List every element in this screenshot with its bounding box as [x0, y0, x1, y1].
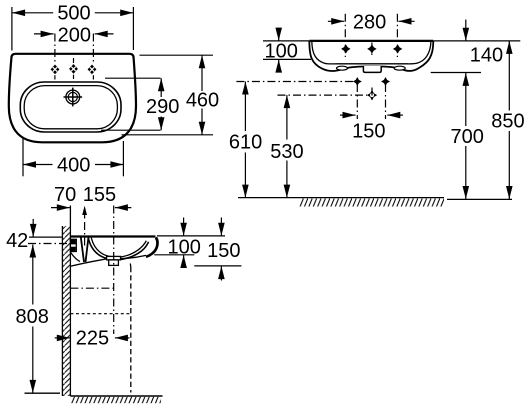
- svg-text:700: 700: [451, 126, 484, 148]
- svg-text:200: 200: [58, 24, 91, 46]
- svg-text:150: 150: [207, 240, 240, 262]
- svg-text:808: 808: [16, 306, 49, 328]
- svg-text:150: 150: [352, 120, 385, 142]
- svg-text:225: 225: [76, 327, 109, 349]
- svg-text:140: 140: [470, 44, 503, 66]
- svg-text:460: 460: [186, 89, 219, 111]
- svg-text:610: 610: [229, 132, 262, 154]
- svg-text:100: 100: [265, 41, 298, 63]
- svg-text:290: 290: [146, 96, 179, 118]
- svg-text:280: 280: [353, 11, 386, 33]
- svg-text:400: 400: [57, 154, 90, 176]
- svg-text:42: 42: [6, 230, 28, 252]
- svg-text:155: 155: [83, 184, 116, 206]
- svg-text:530: 530: [270, 141, 303, 163]
- svg-text:850: 850: [491, 110, 524, 132]
- svg-text:70: 70: [54, 184, 76, 206]
- svg-text:500: 500: [57, 3, 90, 25]
